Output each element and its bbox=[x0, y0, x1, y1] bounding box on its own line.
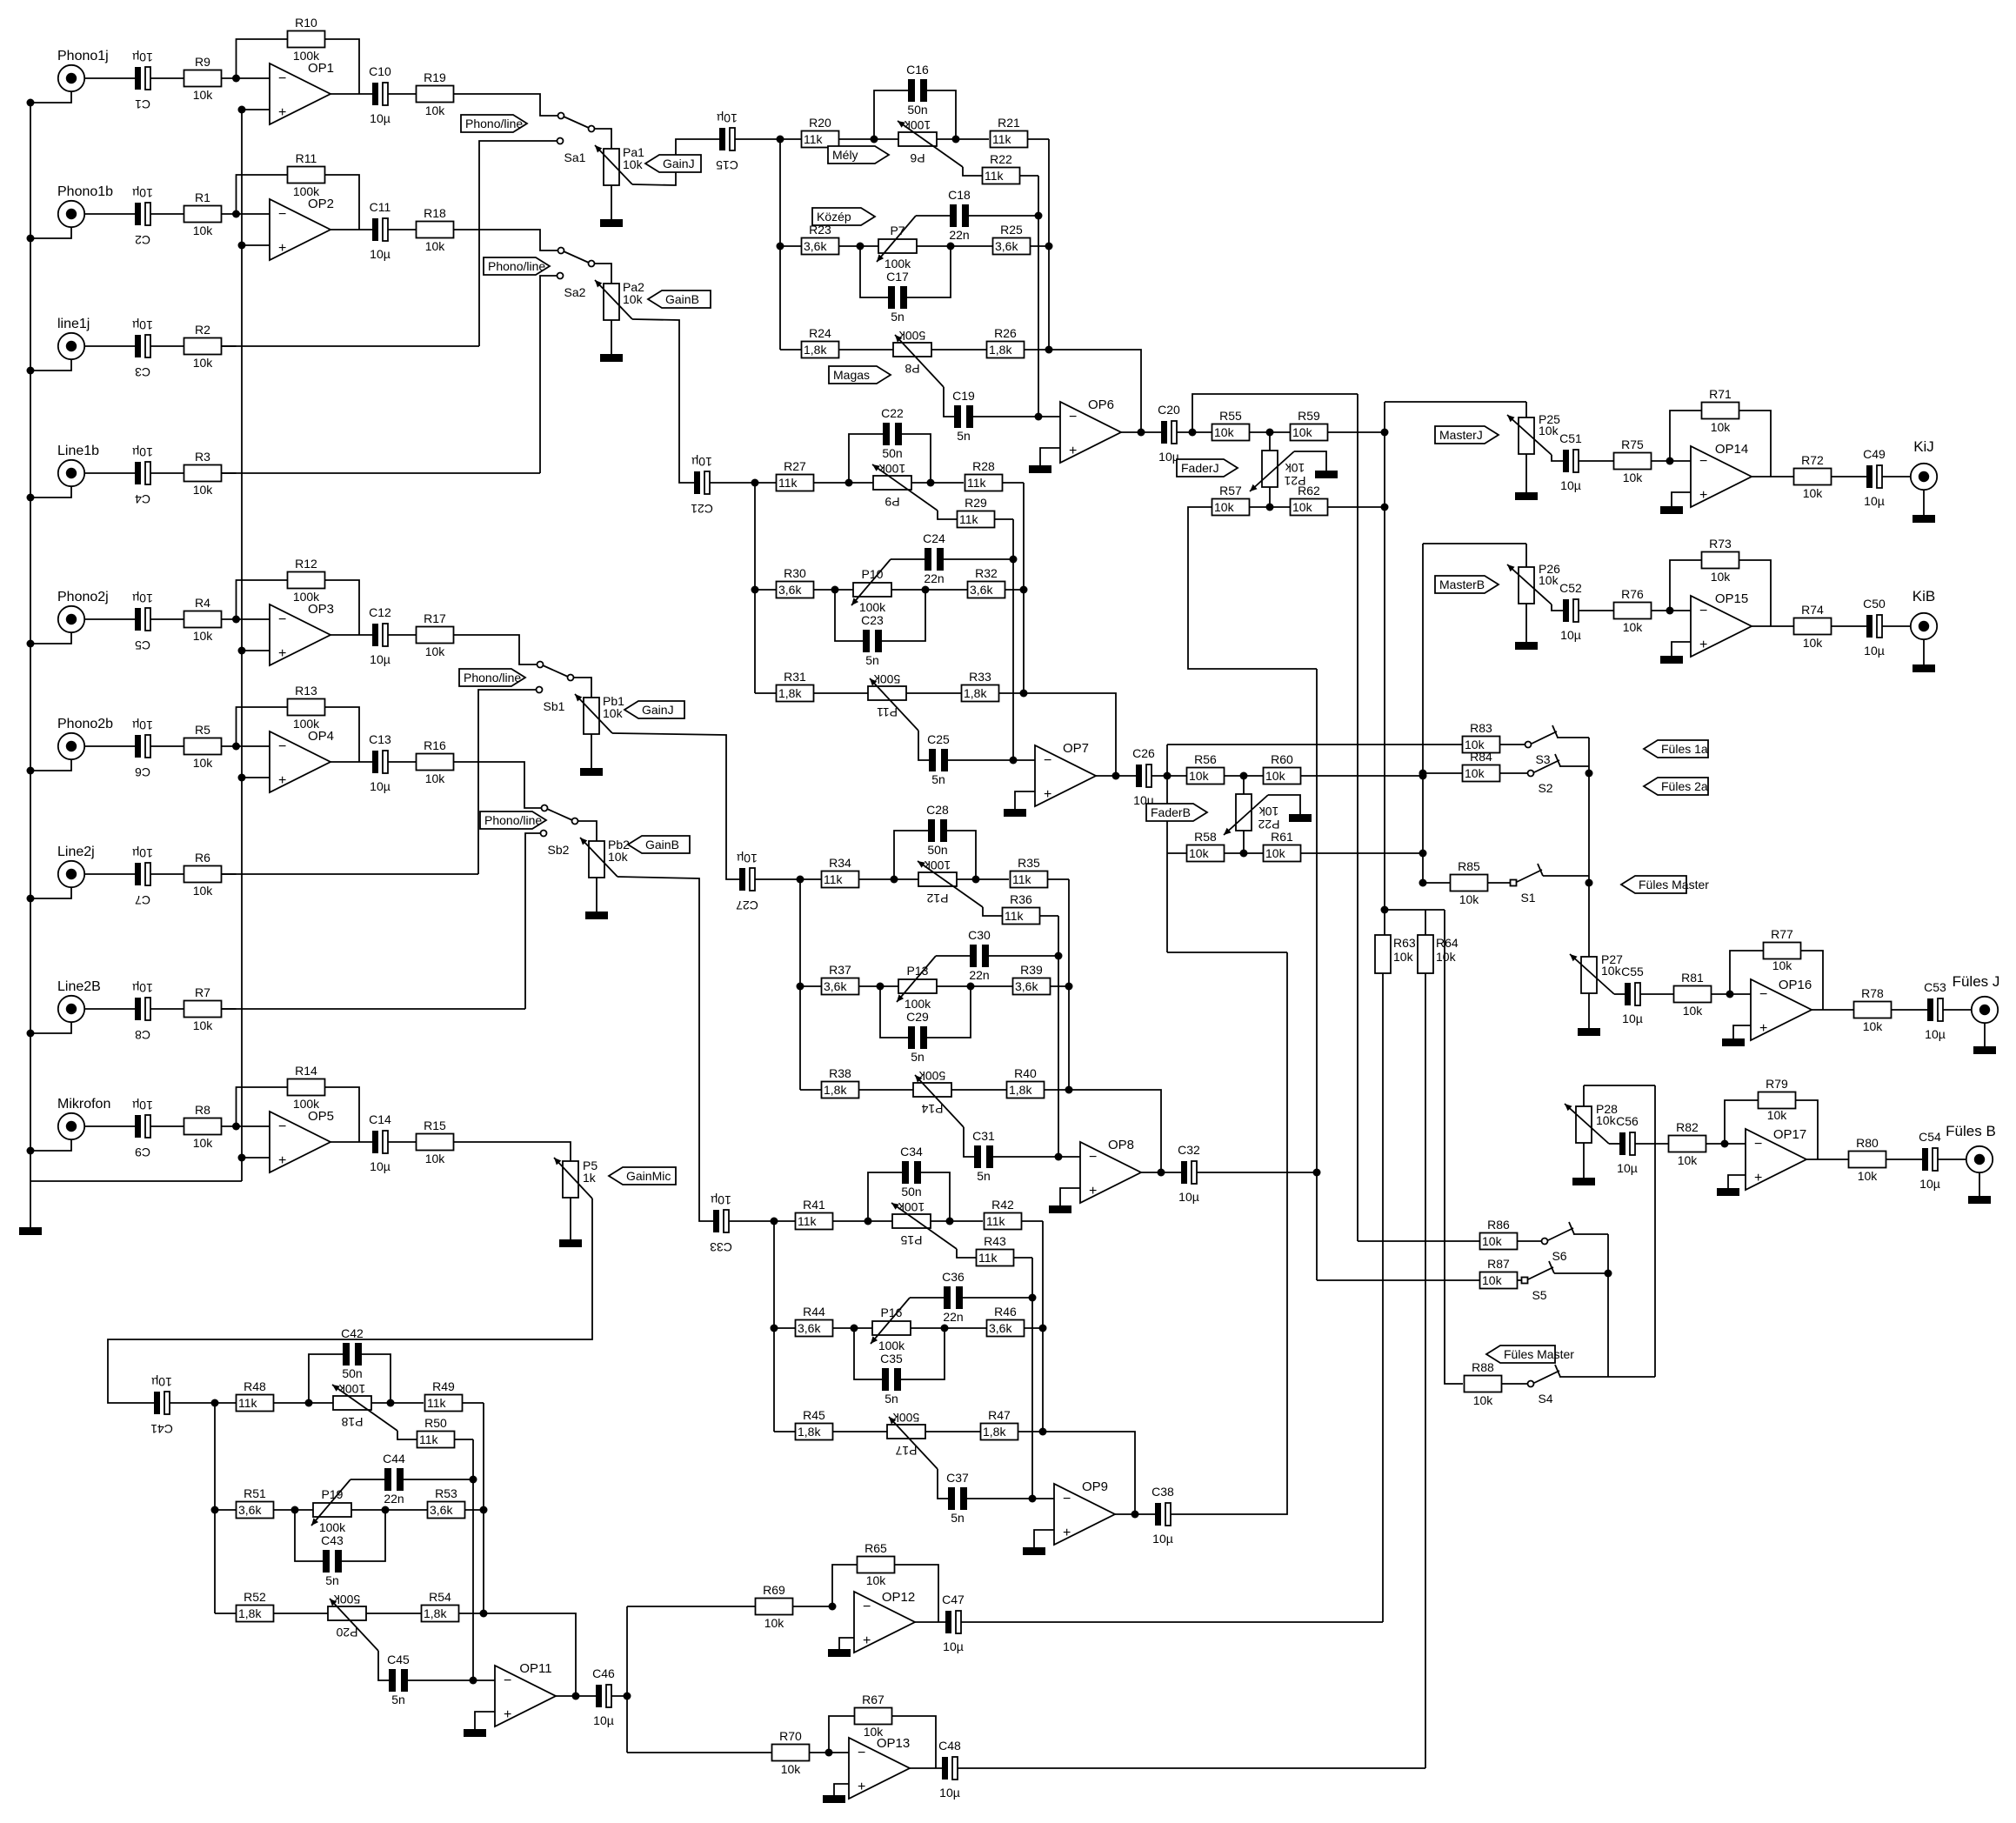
svg-text:C27: C27 bbox=[736, 898, 758, 912]
svg-text:10k: 10k bbox=[1596, 1113, 1617, 1127]
svg-text:10k: 10k bbox=[1678, 1153, 1699, 1167]
junction OP13 - bbox=[825, 1749, 833, 1757]
svg-text:10µ: 10µ bbox=[717, 111, 738, 125]
svg-text:+: + bbox=[278, 105, 286, 120]
input/output jack J2 (Phono1b) bbox=[58, 201, 84, 227]
junction ground bus J3 bbox=[27, 367, 35, 375]
wire C33 to input node bbox=[729, 1220, 774, 1222]
wire bbox=[800, 1089, 821, 1091]
svg-text:OP3: OP3 bbox=[308, 602, 334, 617]
svg-text:C56: C56 bbox=[1616, 1114, 1639, 1128]
junction OP3 + on bus bbox=[238, 647, 246, 655]
capacitor C30 bbox=[970, 945, 977, 967]
junction treble pot left bbox=[871, 136, 878, 144]
svg-text:R21: R21 bbox=[998, 116, 1020, 130]
potentiometer P5 bbox=[563, 1161, 578, 1198]
svg-text:−: − bbox=[278, 71, 286, 86]
node OP7 output bbox=[1112, 772, 1120, 780]
wire Pb2 wiper to EQ input bbox=[617, 877, 713, 1221]
wire OP3 output bbox=[330, 634, 372, 636]
wiper of P5 bbox=[554, 1158, 592, 1199]
wire bus pre-fader J tap bbox=[1357, 394, 1358, 1241]
svg-text:Füles B: Füles B bbox=[1946, 1123, 1996, 1139]
svg-text:S1: S1 bbox=[1520, 891, 1535, 905]
svg-text:50n: 50n bbox=[882, 446, 902, 460]
potentiometer P6 bbox=[898, 132, 937, 146]
label flag GainJ bbox=[645, 155, 701, 172]
wire R3 out bbox=[222, 472, 237, 474]
svg-text:R30: R30 bbox=[784, 566, 806, 580]
wire P18 wiper to R50 bbox=[397, 1431, 417, 1439]
wire C14 to R15 bbox=[388, 1141, 417, 1143]
resistor R48 bbox=[237, 1395, 274, 1412]
svg-text:5n: 5n bbox=[891, 310, 905, 324]
wire EQ input rail bbox=[214, 1403, 216, 1613]
wire C51 to R75 bbox=[1579, 460, 1614, 462]
svg-text:R41: R41 bbox=[803, 1198, 825, 1212]
wire feed to Sa1 bbox=[454, 94, 558, 116]
svg-text:100k: 100k bbox=[924, 858, 951, 872]
wire OP14 + to ground bbox=[1672, 492, 1691, 506]
svg-text:3,6k: 3,6k bbox=[824, 979, 847, 993]
junction outer bus row3 bbox=[480, 1610, 488, 1618]
svg-text:5n: 5n bbox=[325, 1573, 339, 1587]
resistor R22 bbox=[983, 168, 1020, 184]
svg-text:C37: C37 bbox=[946, 1471, 969, 1485]
ground (P26) bbox=[1515, 642, 1538, 650]
resistor R5 bbox=[184, 738, 222, 755]
capacitor C2 bbox=[135, 203, 141, 225]
wire R38 to P14 bbox=[859, 1089, 913, 1091]
wire R25 out bbox=[1031, 245, 1049, 247]
label flag FaderB bbox=[1146, 804, 1207, 821]
svg-text:22n: 22n bbox=[949, 228, 969, 242]
wire op-amp + input bus bbox=[241, 110, 243, 1181]
input/output jack J1 (Phono1j) bbox=[58, 65, 84, 91]
switch S5 bbox=[1522, 1278, 1528, 1284]
wire KiB to ground bbox=[1923, 640, 1925, 665]
switch S4 bbox=[1528, 1381, 1534, 1387]
wire Sb1 NC to line input bbox=[478, 690, 537, 874]
capacitor C45 bbox=[389, 1669, 396, 1692]
potentiometer Pa1 bbox=[604, 149, 619, 185]
wiper of P8 bbox=[895, 335, 944, 387]
wire R52 to P20 bbox=[274, 1613, 328, 1614]
resistor R12 bbox=[288, 572, 325, 589]
resistor R2 bbox=[184, 338, 222, 355]
svg-text:+: + bbox=[278, 241, 286, 256]
svg-text:R78: R78 bbox=[1861, 986, 1884, 1000]
label flag Fules Master (S4) bbox=[1486, 1346, 1555, 1363]
wire feedback R14 left bbox=[237, 1087, 288, 1126]
wire feedback R67 right bbox=[892, 1716, 936, 1768]
svg-text:R49: R49 bbox=[432, 1379, 455, 1393]
junction fader J top bbox=[1266, 429, 1274, 437]
svg-text:S4: S4 bbox=[1538, 1392, 1552, 1406]
junction outer bus row3 bbox=[1045, 346, 1053, 354]
wiper of P10 bbox=[851, 559, 891, 605]
wire Pa2 to ground bbox=[611, 320, 612, 354]
svg-text:10k: 10k bbox=[193, 629, 214, 643]
wire C4 to R3 bbox=[150, 472, 184, 474]
svg-text:R8: R8 bbox=[195, 1103, 210, 1117]
input/output jack JKB (KiB) bbox=[1911, 613, 1937, 639]
svg-text:OP13: OP13 bbox=[877, 1736, 910, 1751]
switch Sb1 bbox=[537, 662, 544, 668]
potentiometer P28 bbox=[1576, 1106, 1592, 1143]
wire C49 to KiJ bbox=[1882, 476, 1910, 477]
wiper of P20 bbox=[330, 1599, 378, 1651]
wire R34 to P12 bbox=[859, 878, 918, 880]
node OP1 inverting input bbox=[232, 75, 240, 83]
op-amp OP7 bbox=[1035, 745, 1096, 806]
op-amp OP11 bbox=[495, 1666, 556, 1726]
wire C24 out bbox=[944, 558, 1013, 560]
wire bbox=[755, 692, 776, 694]
svg-text:R50: R50 bbox=[424, 1416, 447, 1430]
svg-text:Sa2: Sa2 bbox=[564, 285, 586, 299]
resistor R43 bbox=[977, 1250, 1014, 1266]
wire R46 out bbox=[1025, 1327, 1043, 1329]
resistor R17 bbox=[417, 627, 454, 644]
svg-text:R16: R16 bbox=[424, 738, 446, 752]
svg-text:Phono2j: Phono2j bbox=[57, 590, 109, 604]
svg-text:10k: 10k bbox=[1863, 1019, 1884, 1033]
wire OP4 + to bus bbox=[242, 777, 270, 778]
capacitor C36 bbox=[944, 1286, 951, 1309]
svg-text:C8: C8 bbox=[135, 1028, 150, 1042]
label flag GainB bbox=[648, 290, 711, 308]
capacitor C17 bbox=[888, 286, 895, 309]
wire P9 wiper to R29 bbox=[938, 511, 957, 519]
svg-text:10k: 10k bbox=[1292, 425, 1313, 439]
svg-text:10µ: 10µ bbox=[151, 1375, 172, 1389]
svg-text:100k: 100k bbox=[338, 1382, 365, 1396]
wire R42 out bbox=[1022, 1220, 1043, 1222]
capacitor C15 bbox=[719, 128, 725, 150]
wire to R69 bbox=[627, 1606, 755, 1607]
wire R9 out bbox=[222, 77, 237, 79]
junction headphone B bus bbox=[1605, 1270, 1612, 1278]
wire Pa2 wiper to EQ input bbox=[632, 319, 694, 483]
svg-text:10µ: 10µ bbox=[1919, 1177, 1940, 1191]
resistor R35 bbox=[1011, 871, 1048, 888]
svg-text:C44: C44 bbox=[383, 1452, 405, 1466]
svg-text:11k: 11k bbox=[427, 1396, 447, 1410]
svg-text:500k: 500k bbox=[333, 1593, 360, 1606]
resistor R50 bbox=[417, 1432, 455, 1448]
wire bbox=[1250, 506, 1290, 508]
wire C9 to R8 bbox=[150, 1125, 184, 1127]
junction OP14 - bbox=[1666, 457, 1674, 465]
op-amp OP6 bbox=[1060, 402, 1121, 463]
resistor R24 bbox=[802, 342, 839, 358]
svg-text:OP17: OP17 bbox=[1773, 1127, 1806, 1142]
wire headphone B riser bbox=[1654, 1085, 1656, 1377]
wire EQ feedback inner bus bbox=[1012, 519, 1014, 760]
potentiometer P8 bbox=[893, 343, 931, 357]
svg-text:R87: R87 bbox=[1487, 1257, 1510, 1271]
svg-text:3,6k: 3,6k bbox=[970, 583, 993, 597]
wire to P22 top bbox=[1243, 776, 1245, 794]
wire C31 to OP8 - bbox=[993, 1156, 1080, 1158]
svg-text:R70: R70 bbox=[779, 1729, 802, 1743]
wire feedback R77 right bbox=[1801, 951, 1823, 1010]
wire C25 to OP7 - bbox=[948, 759, 1035, 761]
svg-text:Phono/line: Phono/line bbox=[465, 117, 523, 130]
svg-text:10µ: 10µ bbox=[370, 652, 391, 666]
wire OP3 + to bus bbox=[242, 650, 270, 651]
wire feedback R65 left bbox=[832, 1565, 857, 1606]
svg-text:Phono2b: Phono2b bbox=[57, 717, 113, 731]
svg-text:10µ: 10µ bbox=[132, 846, 153, 860]
node OP3 inverting input bbox=[232, 616, 240, 624]
node C32 output bbox=[1313, 1169, 1321, 1177]
svg-text:11k: 11k bbox=[967, 476, 987, 490]
svg-text:R24: R24 bbox=[809, 326, 831, 340]
svg-text:R40: R40 bbox=[1014, 1066, 1037, 1080]
svg-text:R31: R31 bbox=[784, 670, 806, 684]
wire C47 out to bus bbox=[961, 1621, 1383, 1623]
junction C30 on feedback bus bbox=[1055, 952, 1063, 960]
wire S5 out bbox=[1554, 1272, 1608, 1274]
svg-text:3,6k: 3,6k bbox=[989, 1321, 1012, 1335]
svg-text:S6: S6 bbox=[1552, 1249, 1566, 1263]
resistor R81 bbox=[1674, 986, 1712, 1003]
wire J7 to C7 bbox=[85, 873, 136, 875]
label flag GainJ bbox=[624, 701, 684, 718]
svg-text:R75: R75 bbox=[1621, 437, 1644, 451]
node OP11 output bbox=[572, 1693, 580, 1700]
wire P25 wiper out bbox=[1552, 455, 1563, 461]
svg-text:R19: R19 bbox=[424, 70, 446, 84]
wiper of P21 bbox=[1250, 451, 1294, 491]
svg-text:3,6k: 3,6k bbox=[778, 583, 802, 597]
wire OP11 + to ground bbox=[475, 1712, 495, 1729]
wiper of P18 bbox=[332, 1385, 397, 1431]
junction C44 on feedback bus bbox=[470, 1476, 477, 1484]
wire R4 out bbox=[222, 618, 237, 620]
wire R69 to OP12 bbox=[793, 1606, 832, 1607]
resistor R73 bbox=[1702, 552, 1739, 569]
wire P26 wiper out bbox=[1552, 604, 1563, 611]
svg-text:10µ: 10µ bbox=[132, 186, 153, 200]
svg-text:11k: 11k bbox=[804, 132, 824, 146]
svg-text:P12: P12 bbox=[926, 891, 948, 905]
resistor R61 bbox=[1264, 845, 1301, 862]
capacitor C43 bbox=[323, 1550, 330, 1573]
svg-text:C12: C12 bbox=[369, 605, 391, 619]
wire C5 to R4 bbox=[150, 618, 184, 620]
wire feedback R10 left bbox=[237, 39, 288, 78]
svg-text:1,8k: 1,8k bbox=[824, 1083, 847, 1097]
svg-text:OP15: OP15 bbox=[1715, 591, 1748, 606]
svg-text:10µ: 10µ bbox=[370, 111, 391, 125]
junction ground bus J5 bbox=[27, 640, 35, 648]
svg-text:R88: R88 bbox=[1472, 1360, 1494, 1374]
wiper of Pa2 bbox=[595, 280, 632, 319]
wire feedback R11 left bbox=[237, 175, 288, 214]
wire R51 to P19 bbox=[274, 1509, 313, 1511]
resistor R75 bbox=[1614, 453, 1652, 470]
wire Sa1 NC to line input bbox=[479, 141, 557, 346]
svg-text:R33: R33 bbox=[969, 670, 991, 684]
wire to OP5 - bbox=[237, 1125, 270, 1127]
svg-text:P8: P8 bbox=[905, 362, 919, 376]
resistor R40 bbox=[1007, 1082, 1045, 1098]
input/output jack J4 (Line1b) bbox=[58, 460, 84, 486]
wire C52 to R76 bbox=[1579, 610, 1614, 611]
wire ground bus left bbox=[30, 103, 31, 1227]
svg-text:C34: C34 bbox=[900, 1145, 923, 1159]
wire to P21 top bbox=[1269, 432, 1271, 451]
svg-text:R52: R52 bbox=[244, 1590, 266, 1604]
junction outer bus row2 bbox=[1065, 983, 1073, 991]
svg-text:C9: C9 bbox=[135, 1145, 150, 1159]
svg-text:10µ: 10µ bbox=[370, 779, 391, 793]
svg-text:C4: C4 bbox=[135, 492, 150, 506]
svg-text:10µ: 10µ bbox=[370, 1159, 391, 1173]
wire R28 out bbox=[1003, 482, 1024, 484]
wire C11 to R18 bbox=[388, 229, 417, 230]
svg-text:10k: 10k bbox=[866, 1573, 887, 1587]
wire C10 to R19 bbox=[388, 93, 417, 95]
svg-text:C45: C45 bbox=[387, 1653, 410, 1666]
wire OP17 + to ground bbox=[1728, 1175, 1746, 1188]
wire EQ feedback outer bus bbox=[1043, 1221, 1135, 1514]
junction EQ input rail row2 bbox=[211, 1506, 219, 1514]
svg-text:11k: 11k bbox=[992, 132, 1012, 146]
wire R59 out bbox=[1328, 431, 1385, 433]
ground (P25) bbox=[1515, 492, 1538, 500]
wire headphone J bus bbox=[1588, 738, 1590, 957]
svg-text:+: + bbox=[504, 1707, 511, 1722]
svg-text:FaderB: FaderB bbox=[1151, 805, 1191, 819]
capacitor C48 bbox=[942, 1757, 948, 1780]
svg-text:Füles Master: Füles Master bbox=[1639, 878, 1709, 891]
wire J1 shell to ground bus bbox=[30, 92, 71, 104]
svg-text:P13: P13 bbox=[907, 964, 929, 978]
svg-text:Phono1b: Phono1b bbox=[57, 184, 113, 199]
svg-text:C3: C3 bbox=[135, 365, 150, 379]
capacitor C27 bbox=[739, 868, 745, 891]
capacitor C53 bbox=[1927, 998, 1933, 1021]
input/output jack J8 (Line2B) bbox=[58, 996, 84, 1022]
resistor R53 bbox=[428, 1502, 465, 1519]
wire EQ feedback inner bus bbox=[1058, 916, 1059, 1157]
svg-text:10k: 10k bbox=[425, 239, 446, 253]
resistor R21 bbox=[991, 131, 1028, 148]
svg-text:50n: 50n bbox=[927, 843, 947, 857]
svg-text:R81: R81 bbox=[1681, 971, 1704, 985]
resistor R70 bbox=[772, 1745, 810, 1761]
wire J6 to C6 bbox=[85, 745, 136, 747]
svg-text:3,6k: 3,6k bbox=[995, 239, 1018, 253]
capacitor C7 bbox=[135, 863, 141, 885]
svg-text:10k: 10k bbox=[425, 644, 446, 658]
svg-text:C21: C21 bbox=[691, 502, 713, 516]
svg-text:1k: 1k bbox=[583, 1171, 597, 1185]
svg-text:10µ: 10µ bbox=[1864, 494, 1885, 508]
svg-text:+: + bbox=[1063, 1526, 1071, 1540]
node EQ input C15 bbox=[777, 136, 784, 144]
wire P15 wiper to R43 bbox=[957, 1249, 976, 1258]
resistor R87 bbox=[1480, 1272, 1518, 1289]
wire C35 right bbox=[901, 1328, 945, 1379]
svg-text:R55: R55 bbox=[1219, 409, 1242, 423]
resistor R19 bbox=[417, 86, 454, 103]
capacitor C23 bbox=[863, 630, 870, 652]
resistor R9 bbox=[184, 70, 222, 87]
wire R1 out bbox=[222, 213, 237, 215]
potentiometer P19 bbox=[313, 1503, 351, 1517]
potentiometer Pb1 bbox=[584, 698, 599, 734]
svg-text:10µ: 10µ bbox=[370, 247, 391, 261]
wire C22 right bbox=[902, 434, 931, 483]
svg-text:10µ: 10µ bbox=[1152, 1532, 1173, 1546]
wire C46 out bbox=[611, 1695, 627, 1697]
capacitor C55 bbox=[1625, 983, 1631, 1005]
wire bbox=[215, 1402, 236, 1404]
svg-text:10k: 10k bbox=[1459, 892, 1480, 906]
svg-text:10k: 10k bbox=[425, 1152, 446, 1165]
junction OP16 - bbox=[1726, 991, 1734, 998]
wire R2 to Sa1 contact riser bbox=[222, 345, 479, 347]
capacitor C26 bbox=[1136, 765, 1142, 787]
wire J2 shell to ground bus bbox=[30, 228, 71, 239]
ground (OP6 +) bbox=[1029, 465, 1051, 473]
wire C43 right bbox=[342, 1510, 385, 1561]
potentiometer P17 bbox=[887, 1425, 925, 1439]
svg-text:+: + bbox=[1069, 444, 1077, 458]
svg-text:11k: 11k bbox=[778, 476, 798, 490]
wiper of P16 bbox=[871, 1298, 910, 1344]
wire to master B pot bbox=[1423, 543, 1526, 544]
wire R22 out bbox=[1020, 175, 1038, 177]
svg-text:C18: C18 bbox=[948, 188, 971, 202]
wire C13 to R16 bbox=[388, 761, 417, 763]
wiper of P12 bbox=[918, 861, 983, 907]
svg-text:C30: C30 bbox=[968, 928, 991, 942]
label flag FaderJ bbox=[1177, 459, 1238, 477]
wire J3 to C3 bbox=[85, 345, 136, 347]
svg-text:R77: R77 bbox=[1771, 927, 1793, 941]
svg-text:R7: R7 bbox=[195, 985, 210, 999]
svg-text:OP8: OP8 bbox=[1108, 1138, 1134, 1152]
junction mid pot right bbox=[947, 243, 955, 250]
svg-text:R26: R26 bbox=[994, 326, 1017, 340]
svg-text:−: − bbox=[278, 739, 286, 754]
svg-text:Phono/line: Phono/line bbox=[488, 259, 545, 273]
ground (P27) bbox=[1578, 1028, 1600, 1036]
wire OP1 + to bus bbox=[242, 109, 270, 110]
svg-text:R67: R67 bbox=[862, 1693, 885, 1706]
svg-text:10µ: 10µ bbox=[711, 1193, 731, 1207]
wire C44 out bbox=[404, 1479, 473, 1480]
wire R61 out bbox=[1301, 852, 1423, 854]
wire R33 out bbox=[999, 692, 1024, 694]
wire wiper to C24 bbox=[891, 558, 925, 560]
wire OP6 + to ground bbox=[1040, 448, 1060, 465]
svg-text:10k: 10k bbox=[193, 756, 214, 770]
op-amp OP2 bbox=[270, 199, 330, 260]
svg-text:−: − bbox=[1754, 1137, 1762, 1152]
junction treble pot left bbox=[845, 479, 853, 487]
label flag GainMic bbox=[609, 1167, 676, 1185]
junction mid pot left bbox=[857, 243, 864, 250]
wire EQ feedback inner bus bbox=[472, 1439, 474, 1680]
ground (OP13 +) bbox=[823, 1795, 845, 1803]
